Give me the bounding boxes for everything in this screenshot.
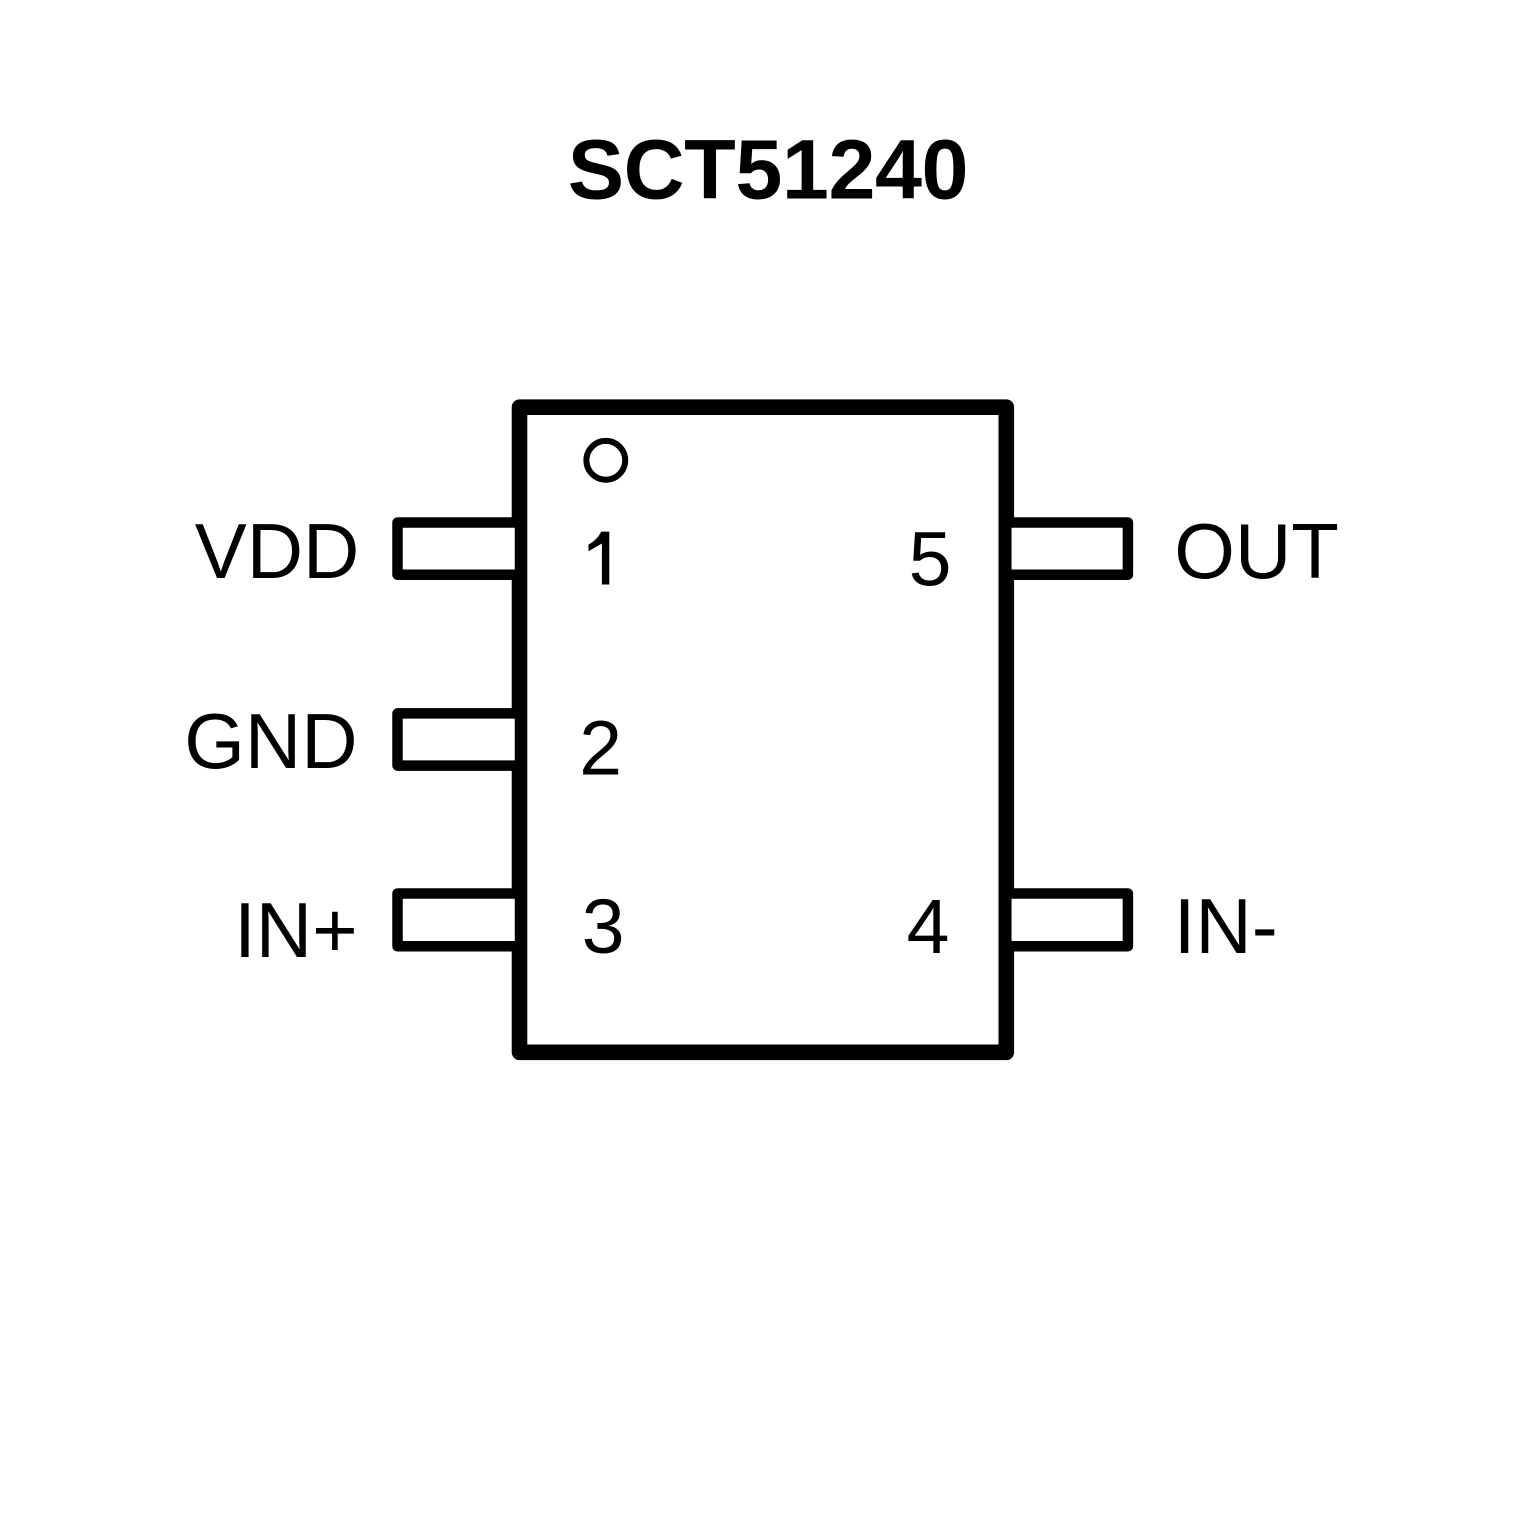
svg-text:2: 2 [579,706,622,792]
pin 3 lead (IN+) [398,894,521,947]
pin-1 indicator circle [586,441,625,480]
svg-text:GND: GND [184,697,357,785]
IC body U1 (SOT23-5 outline) [520,407,1007,1052]
svg-text:OUT: OUT [1174,507,1339,595]
svg-text:5: 5 [909,517,952,603]
pin 5 lead (OUT) [1006,523,1128,575]
svg-text:4: 4 [907,884,950,970]
svg-text:IN-: IN- [1174,882,1278,970]
pin 1 lead (VDD) [398,523,521,575]
svg-text:SCT51240: SCT51240 [568,122,968,216]
svg-text:3: 3 [582,884,625,970]
pin number 1 (Arial-style glyph without foot) [589,532,610,585]
pin 2 lead (GND) [398,713,521,765]
pin 4 lead (IN-) [1006,894,1128,947]
svg-text:IN+: IN+ [234,886,358,974]
svg-text:VDD: VDD [195,507,360,595]
